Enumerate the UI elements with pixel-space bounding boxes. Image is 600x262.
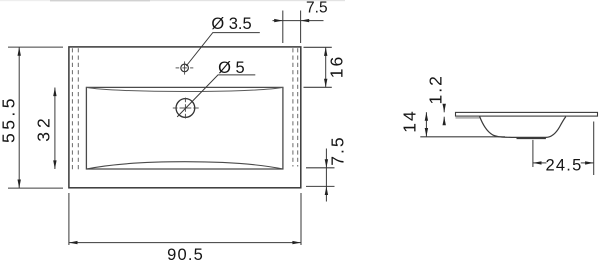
dimension 7.5 top extension lines: [283, 11, 301, 44]
dimension 1.2 arrows: [443, 104, 446, 126]
dimension 7.5 right line and arrows: [325, 149, 328, 202]
overflow hole D3.5 centerlines: [176, 61, 194, 74]
top edge jpeg smudge: [0, 0, 345, 1]
basin front wall bulge curve: [86, 162, 283, 169]
dimension 14 line and arrows: [425, 112, 428, 136]
svg-text:1.2: 1.2: [426, 74, 446, 104]
side view slab underside line: [456, 117, 480, 119]
leader line for D3.5 label: [186, 33, 260, 66]
dimension 16 extension lines: [304, 47, 332, 87]
dimension 90.5 extension lines: [69, 193, 301, 245]
dimension 7.5 right extension lines: [306, 168, 335, 187]
dimension 55.5 line and arrows: [18, 47, 21, 188]
dimension 24.5 line and arrows: [533, 161, 594, 164]
faucet hole D5 circle: [176, 99, 195, 118]
faucet hole D5 centerlines: [173, 98, 199, 119]
dimension 90.5 line and arrows: [69, 241, 301, 244]
dimension 24.5 extension lines: [533, 122, 594, 176]
side view bowl profile: [480, 116, 566, 137]
dimension 7.5 top line and arrows: [273, 19, 324, 22]
svg-text:7.5: 7.5: [306, 0, 328, 17]
side view deck slab: [456, 112, 598, 116]
svg-text:55.5: 55.5: [0, 95, 18, 143]
leader line for D5 label: [177, 75, 255, 117]
dimension 32 line and arrows: [53, 88, 56, 170]
svg-text:14: 14: [400, 109, 420, 132]
svg-text:Ø 5: Ø 5: [218, 59, 245, 77]
hidden edge dashed line right 2: [297, 48, 299, 166]
svg-text:24.5: 24.5: [546, 156, 583, 174]
basin inner opening rectangle: [86, 87, 283, 169]
hidden edge dashed line left 2: [77, 48, 79, 169]
dimension 14 bottom extension line: [420, 136, 505, 138]
hidden edge dashed line right 1: [292, 48, 294, 166]
svg-text:90.5: 90.5: [167, 246, 204, 262]
svg-text:7.5: 7.5: [327, 135, 347, 165]
basin outer rectangle (front view): [69, 47, 301, 188]
hidden edge dashed line left 1: [71, 48, 73, 169]
svg-text:32: 32: [34, 114, 54, 141]
dimension 55.5 extension lines: [8, 47, 63, 188]
svg-text:16: 16: [327, 55, 347, 78]
side view drain recess bar: [517, 137, 546, 139]
basin back wall sag curve: [86, 87, 283, 91]
dimension 16 line and arrows: [324, 47, 327, 87]
svg-text:Ø 3.5: Ø 3.5: [211, 15, 251, 33]
overflow hole D3.5 circle: [181, 64, 189, 72]
